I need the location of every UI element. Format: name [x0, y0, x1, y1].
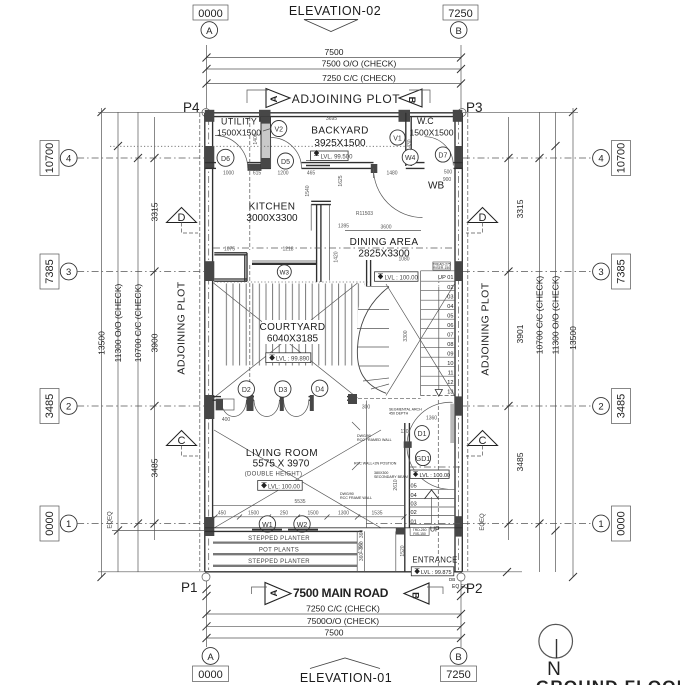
svg-text:1500: 1500 [307, 510, 318, 516]
svg-text:A: A [207, 652, 214, 663]
svg-text:500: 500 [444, 170, 453, 176]
svg-text:1000: 1000 [223, 171, 234, 177]
svg-text:B: B [410, 592, 421, 599]
svg-text:B: B [456, 26, 462, 37]
svg-text:07: 07 [447, 332, 453, 338]
svg-text:STEPPED PLANTER: STEPPED PLANTER [248, 536, 310, 542]
svg-text:ELEVATION-01: ELEVATION-01 [300, 671, 392, 685]
svg-text:P3: P3 [466, 100, 483, 115]
svg-text:13500: 13500 [568, 326, 578, 350]
svg-text:7250: 7250 [448, 8, 472, 20]
svg-text:0000: 0000 [44, 511, 56, 535]
svg-text:LIVING ROOM: LIVING ROOM [246, 448, 318, 459]
svg-text:D6: D6 [221, 156, 230, 163]
svg-text:3485: 3485 [44, 394, 56, 418]
svg-text:RCC FRAME WALL: RCC FRAME WALL [340, 496, 372, 500]
svg-text:3695: 3695 [326, 116, 337, 122]
svg-text:1075: 1075 [224, 247, 235, 253]
svg-text:D: D [479, 212, 487, 224]
svg-text:UP: UP [430, 527, 440, 534]
svg-text:7250: 7250 [446, 669, 470, 681]
svg-text:DINING AREA: DINING AREA [350, 237, 419, 248]
svg-text:0000: 0000 [616, 511, 628, 535]
svg-text:11300 O/O (CHECK): 11300 O/O (CHECK) [113, 283, 123, 362]
svg-text:02: 02 [447, 285, 453, 291]
svg-text:2: 2 [598, 402, 603, 413]
svg-text:09: 09 [447, 351, 453, 357]
svg-text:LVL : 99.890: LVL : 99.890 [276, 357, 310, 363]
svg-text:POT PLANTS: POT PLANTS [259, 547, 299, 553]
svg-text:7385: 7385 [616, 259, 628, 283]
svg-text:400: 400 [222, 417, 231, 423]
svg-text:04: 04 [411, 493, 417, 499]
svg-text:D7: D7 [438, 153, 447, 160]
svg-text:3901: 3901 [515, 324, 525, 343]
svg-text:ELEVATION-02: ELEVATION-02 [289, 4, 381, 18]
svg-text:360: 360 [359, 530, 365, 539]
svg-text:1500: 1500 [248, 510, 259, 516]
svg-text:2: 2 [66, 402, 71, 413]
svg-text:3000X3300: 3000X3300 [246, 213, 298, 224]
svg-text:300: 300 [362, 405, 371, 411]
svg-text:7500O/O (CHECK): 7500O/O (CHECK) [307, 616, 379, 626]
svg-text:W3: W3 [280, 269, 290, 276]
svg-text:ADJOINING PLOT: ADJOINING PLOT [480, 282, 492, 375]
svg-text:2610: 2610 [393, 479, 399, 490]
svg-text:W.C: W.C [417, 116, 434, 126]
svg-text:1080: 1080 [398, 257, 409, 263]
svg-text:1540: 1540 [305, 185, 311, 196]
svg-text:7250 C/C (CHECK): 7250 C/C (CHECK) [306, 604, 380, 614]
svg-text:1360: 1360 [426, 416, 437, 422]
svg-text:EQ EQ: EQ EQ [452, 584, 468, 590]
svg-text:EQEQ: EQEQ [108, 511, 114, 529]
svg-text:7500: 7500 [325, 628, 344, 638]
svg-text:3925X1500: 3925X1500 [314, 138, 366, 149]
svg-text:UTILITY: UTILITY [221, 117, 257, 127]
svg-text:01: 01 [411, 519, 417, 525]
svg-text:1500X1500: 1500X1500 [410, 128, 454, 138]
svg-text:V1: V1 [393, 136, 402, 143]
svg-text:STEPPED PLANTER: STEPPED PLANTER [248, 559, 310, 565]
svg-text:D5: D5 [281, 159, 290, 166]
svg-text:C: C [479, 435, 487, 447]
svg-text:05: 05 [411, 484, 417, 490]
svg-text:D2: D2 [242, 387, 251, 394]
svg-text:ENTRANCE: ENTRANCE [412, 556, 457, 565]
svg-text:6040X3185: 6040X3185 [267, 334, 319, 345]
svg-text:1390: 1390 [358, 542, 364, 553]
svg-text:1218: 1218 [282, 247, 293, 253]
svg-text:3600: 3600 [380, 225, 391, 231]
svg-text:900: 900 [443, 177, 452, 183]
svg-text:D4: D4 [315, 386, 324, 393]
svg-text:GROUND FLOOR PLAN: GROUND FLOOR PLAN [536, 677, 680, 685]
svg-text:10700: 10700 [616, 143, 628, 174]
svg-text:4: 4 [66, 154, 71, 165]
svg-text:P1: P1 [181, 580, 198, 595]
svg-text:3485: 3485 [616, 394, 628, 418]
svg-text:LVL : 99.875: LVL : 99.875 [421, 570, 452, 576]
svg-text:D1: D1 [418, 431, 427, 438]
svg-text:UP 01: UP 01 [438, 275, 453, 281]
svg-text:3300: 3300 [403, 330, 409, 341]
svg-text:11300 O/O (CHECK): 11300 O/O (CHECK) [551, 275, 561, 354]
svg-text:04: 04 [447, 304, 453, 310]
svg-text:LVL. 99.500: LVL. 99.500 [321, 154, 354, 160]
svg-text:10: 10 [447, 361, 453, 367]
svg-text:C: C [178, 435, 186, 447]
svg-text:BACKYARD: BACKYARD [311, 126, 368, 137]
svg-text:LVL : 100.00: LVL : 100.00 [420, 473, 451, 479]
svg-text:RCC WALL+2N POSTION: RCC WALL+2N POSTION [354, 462, 397, 466]
svg-text:DB: DB [449, 577, 455, 582]
svg-text:7500 O/O (CHECK): 7500 O/O (CHECK) [322, 59, 397, 69]
svg-text:GD1: GD1 [416, 456, 431, 463]
svg-text:1: 1 [598, 519, 603, 530]
svg-text:A: A [269, 95, 280, 102]
svg-text:3315: 3315 [515, 199, 525, 218]
svg-text:A: A [269, 589, 280, 596]
svg-text:1: 1 [66, 519, 71, 530]
svg-text:ADJOINING PLOT: ADJOINING PLOT [292, 92, 400, 106]
svg-text:3: 3 [598, 267, 603, 278]
svg-text:1400: 1400 [253, 133, 259, 144]
svg-text:1625: 1625 [338, 175, 344, 186]
svg-text:P2: P2 [466, 581, 483, 596]
svg-text:P4: P4 [183, 100, 200, 115]
svg-text:1480: 1480 [386, 171, 397, 177]
svg-text:3315: 3315 [150, 202, 160, 221]
svg-text:250: 250 [280, 510, 289, 516]
svg-text:12: 12 [447, 380, 453, 386]
svg-text:110: 110 [401, 429, 409, 435]
svg-text:0000: 0000 [198, 8, 222, 20]
svg-text:1430: 1430 [407, 139, 413, 150]
svg-text:1535: 1535 [371, 510, 382, 516]
svg-text:10700: 10700 [44, 143, 56, 174]
svg-text:SECONDARY BEAM: SECONDARY BEAM [374, 475, 408, 479]
svg-text:1200: 1200 [277, 171, 288, 177]
svg-text:1520: 1520 [400, 545, 406, 556]
svg-text:A: A [206, 26, 213, 37]
svg-text:7500 MAIN ROAD: 7500 MAIN ROAD [293, 586, 389, 600]
svg-text:7500: 7500 [325, 47, 344, 57]
svg-text:B: B [455, 652, 461, 663]
svg-text:08: 08 [447, 342, 453, 348]
svg-text:13: 13 [447, 389, 453, 395]
svg-text:13500: 13500 [97, 331, 107, 355]
svg-text:COURTYARD: COURTYARD [259, 322, 325, 333]
svg-text:W4: W4 [405, 155, 416, 162]
svg-text:05: 05 [447, 313, 453, 319]
svg-text:465: 465 [307, 171, 316, 177]
svg-text:KITCHEN: KITCHEN [249, 202, 296, 213]
svg-text:ADJOINING PLOT: ADJOINING PLOT [176, 281, 188, 374]
svg-text:3900: 3900 [150, 333, 160, 352]
svg-text:10700 C/C (CHECK): 10700 C/C (CHECK) [535, 276, 545, 355]
svg-text:D: D [178, 212, 186, 224]
svg-text:RIS-150: RIS-150 [413, 532, 426, 536]
svg-text:LVL: 100.00: LVL: 100.00 [268, 484, 301, 490]
svg-text:EQEQ: EQEQ [480, 513, 486, 531]
svg-text:0000: 0000 [198, 669, 222, 681]
svg-text:RCC FRAMED WALL: RCC FRAMED WALL [357, 438, 392, 442]
svg-text:5535: 5535 [294, 499, 305, 505]
svg-text:R11503: R11503 [356, 211, 373, 217]
svg-text:1420: 1420 [334, 251, 340, 262]
svg-text:06: 06 [447, 323, 453, 329]
svg-text:3: 3 [66, 267, 71, 278]
svg-text:450: 450 [218, 510, 227, 516]
svg-text:7250 C/C (CHECK): 7250 C/C (CHECK) [322, 73, 396, 83]
svg-text:10700 C/C (CHECK): 10700 C/C (CHECK) [133, 284, 143, 363]
svg-text:02: 02 [411, 510, 417, 516]
svg-text:03: 03 [411, 502, 417, 508]
svg-text:B: B [406, 97, 417, 104]
svg-text:1395: 1395 [338, 224, 349, 230]
svg-text:1300: 1300 [338, 510, 349, 516]
svg-text:(DOUBLE HEIGHT): (DOUBLE HEIGHT) [245, 472, 303, 478]
svg-text:450 DEPTH: 450 DEPTH [389, 412, 409, 416]
svg-text:7385: 7385 [44, 259, 56, 283]
svg-text:D3: D3 [278, 387, 287, 394]
svg-text:3485: 3485 [515, 452, 525, 471]
svg-text:3485: 3485 [150, 458, 160, 477]
svg-text:RISER-150: RISER-150 [433, 266, 450, 270]
svg-text:5575 X 3970: 5575 X 3970 [253, 459, 310, 470]
svg-text:615: 615 [253, 171, 262, 177]
svg-text:LVL : 100.00: LVL : 100.00 [385, 275, 419, 281]
svg-text:V2: V2 [275, 127, 284, 134]
svg-text:03: 03 [447, 294, 453, 300]
svg-text:4: 4 [598, 154, 603, 165]
svg-text:11: 11 [448, 370, 454, 376]
